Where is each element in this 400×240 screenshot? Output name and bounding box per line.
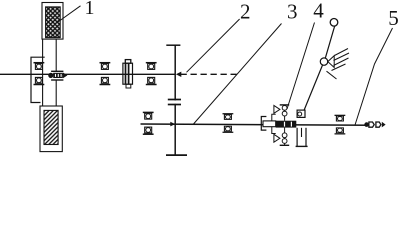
shaft I (input, horizontal) [0,73,175,75]
bearing B6 on shaft III [335,115,346,134]
clutch cone top [274,105,280,113]
shifter fork lower U [296,128,298,146]
belt line left [42,39,44,106]
ball handle [330,19,338,27]
belt line right (interrupted by coupling) [55,39,57,71]
pulley box bottom (outer) [40,106,62,152]
pulley box top (outer) [42,3,63,40]
svg-text:1: 1 [85,0,95,19]
pulley P1 (cross-hatched) [46,7,61,38]
clutch step bottom [272,127,276,134]
clutch pins top [280,104,290,106]
lever link rod [304,65,323,111]
clutch hub (dark) [276,121,297,128]
shaft II coupling bars [174,100,177,103]
arrow on dashed centreline [176,72,181,77]
leader line 1 [57,6,81,23]
pulley P2 (diagonal-hatched) [44,110,58,144]
leader line 2 [187,19,240,72]
coupling caps on shaft I [51,70,63,72]
bearing B2 on shaft I [100,63,111,85]
motor bracket / housing [31,57,45,102]
clutch pins bottom [284,128,286,146]
svg-text:4: 4 [313,0,324,23]
fixed support triangle [328,56,334,68]
lever pivot [320,58,327,65]
bearing B1 on shaft I at bracket [34,63,45,85]
bearing B3 on shaft I [146,63,157,85]
svg-text:5: 5 [388,6,399,30]
shaft II top bar [166,44,180,46]
leader line 5 [355,28,393,126]
shaft II (vertical) [174,45,176,155]
support hatching [335,49,349,56]
arrow at shaft II/III junction [170,122,175,127]
svg-text:2: 2 [240,0,251,23]
lever upper arm [325,26,334,58]
output element (drill/centre) on shaft III [364,122,369,127]
gear block G1 on shaft I [125,60,131,64]
clutch sleeve [263,121,276,127]
leader line 4 [287,23,315,110]
bearing B4 on shaft III [143,112,154,134]
dashed centreline [181,73,239,75]
shifter fork box [297,110,305,117]
clutch cone bottom [274,134,280,142]
clutch left bracket [261,117,266,131]
clutch step top [272,114,276,121]
shaft II bottom bar [166,154,187,156]
bearing B5 on shaft III [223,114,234,133]
leader line 3 [194,24,282,125]
coupling centre element on shaft I [48,73,53,78]
svg-text:3: 3 [287,0,298,24]
shaft III (lower, horizontal) [141,124,373,125]
